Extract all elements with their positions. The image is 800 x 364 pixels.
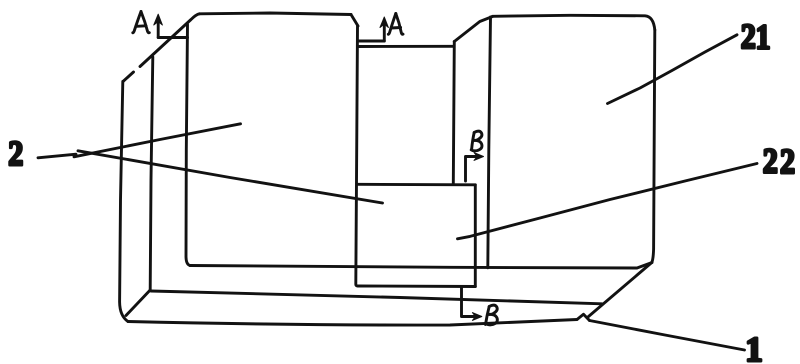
base top front edge	[151, 291, 602, 304]
section marker A middle: arrow shaft	[383, 23, 386, 41]
leader line for 22	[458, 164, 758, 239]
block 21 right edge	[652, 30, 655, 263]
block 22 bottom edge	[358, 285, 475, 288]
label B lower (hand-drawn)	[486, 305, 498, 325]
block 21 top-left bevel	[454, 17, 492, 42]
svg-text:1: 1	[745, 330, 763, 364]
block 2 top back edge	[200, 13, 352, 15]
svg-text:1: 1	[756, 19, 771, 58]
block 22 top edge	[358, 183, 475, 186]
section marker A left: horizontal line	[158, 36, 187, 39]
section marker B lower: corner with arrow	[462, 288, 477, 317]
base bottom-left depth edge	[126, 290, 150, 316]
leader line for 2 (lower branch)	[78, 151, 383, 203]
block 2 top-left depth edge (main slant)	[140, 14, 200, 67]
section marker B upper: arrowhead	[474, 153, 484, 161]
label 22	[763, 142, 778, 181]
block 2 top-right bevel	[351, 15, 358, 27]
base bottom front edge	[128, 320, 577, 326]
label A left (hand-drawn)	[133, 12, 150, 33]
label 21	[741, 18, 756, 57]
section marker A left: arrowhead	[154, 14, 163, 25]
leader line for 21	[608, 35, 738, 104]
base front-left vertical edge	[150, 57, 153, 290]
block 2 left front edge	[186, 25, 190, 266]
section marker B lower: arrowhead	[472, 313, 481, 321]
leader line for 1 (kink at base bottom edge)	[577, 314, 590, 320]
label B upper (hand-drawn)	[471, 131, 482, 151]
leader line for 1	[590, 321, 745, 351]
leader line for 2 (stem)	[38, 154, 76, 158]
svg-text:2: 2	[8, 135, 23, 174]
leader line for 2 (upper branch)	[74, 124, 241, 157]
section marker B upper: corner with arrow	[466, 157, 479, 182]
label 2	[8, 135, 23, 174]
section marker A middle: arrowhead	[380, 17, 388, 28]
label A middle (hand-drawn)	[388, 14, 403, 35]
block 21 left depth edge	[488, 17, 491, 268]
base top back edge	[190, 263, 652, 269]
section marker A left: arrow shaft	[157, 21, 160, 38]
block 2 top-left depth edge (dashed start segment)	[123, 72, 134, 82]
slot back wall top edge	[358, 45, 454, 48]
block 21 top edge	[493, 15, 655, 30]
svg-text:2: 2	[763, 142, 778, 181]
section marker A middle: horizontal line	[358, 40, 384, 43]
svg-text:2: 2	[741, 18, 756, 57]
svg-text:2: 2	[780, 143, 795, 182]
block 22 right edge	[474, 185, 477, 287]
base right depth edge	[589, 263, 652, 317]
base left outer edge	[120, 82, 128, 322]
label 1	[745, 330, 763, 364]
block 2 right front edge	[356, 26, 358, 286]
block 21 left front edge	[453, 42, 454, 185]
